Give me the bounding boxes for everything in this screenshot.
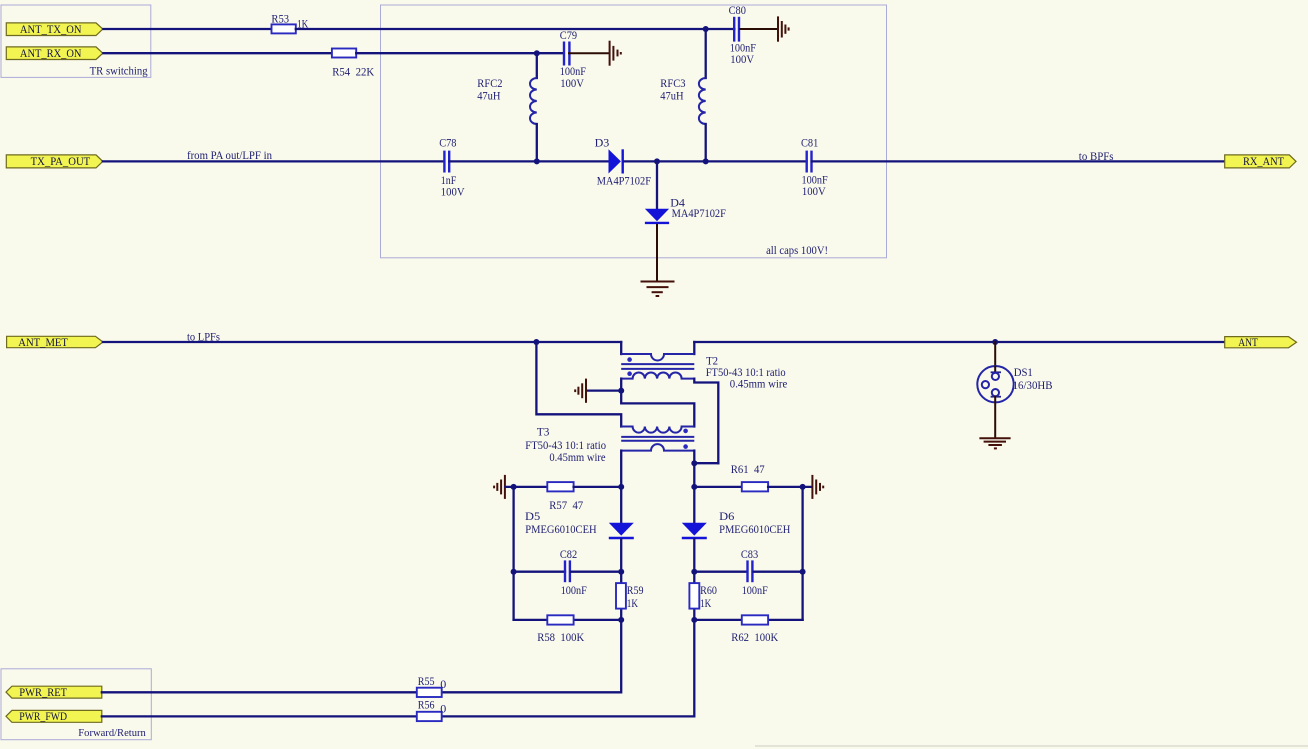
junction T2 secondary/ground (618, 388, 624, 394)
junction T3/T2 return (691, 460, 697, 466)
junction left rail top (511, 484, 517, 490)
junction RFC2 top (534, 50, 540, 56)
resistor R53 (271, 12, 308, 34)
capacitor C79 (560, 28, 586, 90)
box TR switching (1, 5, 151, 77)
junction C83 right (800, 569, 806, 575)
resistor R59 (616, 572, 644, 620)
svg-text:ANT_RX_ON: ANT_RX_ON (20, 48, 82, 60)
port ANT_TX_ON (6, 23, 103, 36)
svg-text:R61 47: R61 47 (731, 462, 765, 476)
svg-text:ANT_TX_ON: ANT_TX_ON (20, 24, 82, 36)
svg-text:all caps 100V!: all caps 100V! (766, 245, 828, 257)
wire C81 to RX_ANT (812, 160, 1225, 162)
svg-text:to BPFs: to BPFs (1079, 151, 1114, 163)
wire D3 to C81 (624, 160, 807, 162)
svg-text:R60: R60 (700, 583, 717, 597)
wire DS1 to ground (994, 397, 996, 438)
junction RFC2 bottom (534, 158, 540, 164)
wire left rail vertical (512, 487, 514, 620)
svg-text:R59: R59 (627, 583, 644, 597)
wire left branch to PWR_RET (442, 620, 622, 692)
resistor R55 (417, 674, 447, 697)
svg-text:MA4P7102F: MA4P7102F (672, 206, 727, 220)
wire ANT_MET to T2 (103, 341, 621, 343)
resistor R60 (689, 572, 716, 620)
junction D6 top (691, 484, 697, 490)
wire PWR_RET to R55 (102, 691, 417, 693)
svg-text:0: 0 (440, 677, 446, 691)
svg-text:0: 0 (440, 701, 446, 715)
svg-text:0.45mm wire: 0.45mm wire (549, 450, 605, 464)
wire junction to C80 (706, 28, 735, 30)
svg-text:C83: C83 (741, 547, 758, 561)
resistor R56 (417, 698, 447, 722)
wire R57 to D5 node (574, 486, 622, 488)
svg-text:TR switching: TR switching (90, 65, 148, 77)
diode D6 (682, 487, 791, 572)
svg-text:R55: R55 (418, 674, 435, 688)
svg-text:D5: D5 (525, 509, 540, 523)
port PWR_RET (6, 686, 102, 699)
diode D3 (595, 135, 652, 187)
junction R58 right (618, 617, 624, 623)
svg-text:PMEG6010CEH: PMEG6010CEH (719, 522, 791, 536)
lamp DS1 (977, 342, 1052, 402)
junction C83 left (691, 569, 697, 575)
svg-text:ANT: ANT (1238, 337, 1258, 349)
ground at C80 (778, 16, 789, 41)
svg-text:R54 22K: R54 22K (332, 64, 374, 78)
svg-text:MA4P7102F: MA4P7102F (597, 174, 652, 188)
ground at C79 (610, 41, 621, 66)
svg-text:C81: C81 (801, 136, 818, 150)
junction T3 branch (533, 339, 539, 345)
capacitor C78 (439, 136, 465, 199)
svg-text:R57 47: R57 47 (549, 498, 583, 512)
wire D4 to ground (656, 225, 658, 281)
wire ANT_MET branch to T3 (536, 342, 621, 427)
box Forward/Return (1, 669, 151, 740)
resistor R54 (332, 49, 375, 79)
wire T2 return to junction (694, 462, 718, 464)
junction C82 left (511, 569, 517, 575)
svg-text:ANT_MET: ANT_MET (18, 337, 68, 349)
svg-text:100V: 100V (560, 76, 584, 90)
resistor R58 (514, 615, 622, 644)
svg-text:PMEG6010CEH: PMEG6010CEH (525, 522, 597, 536)
junction C80/RFC3 top (703, 26, 709, 32)
ground left of R57 (494, 475, 505, 499)
diode D4 (645, 161, 726, 223)
port PWR_FWD (6, 710, 102, 723)
wire right branch to PWR_FWD (442, 620, 695, 717)
box all caps 100V (381, 5, 887, 258)
svg-text:TX_PA_OUT: TX_PA_OUT (31, 156, 91, 168)
svg-text:100nF: 100nF (561, 583, 587, 597)
wire ground to T2 (587, 389, 622, 391)
wire TX_PA_OUT to C78 (103, 160, 444, 162)
sheet border mark (755, 745, 1308, 747)
inductor RFC2 (477, 53, 537, 161)
port ANT_RX_ON (6, 47, 103, 60)
svg-text:from PA out/LPF in: from PA out/LPF in (187, 150, 272, 162)
wire T3 left down (620, 451, 622, 487)
transformer T3 (525, 425, 694, 464)
inductor RFC3 (660, 29, 705, 161)
port ANT (1225, 337, 1297, 350)
svg-text:Forward/Return: Forward/Return (78, 727, 146, 739)
svg-text:100V: 100V (730, 52, 754, 66)
junction C82 right (618, 569, 624, 575)
capacitor C82 (514, 547, 622, 597)
port TX_PA_OUT (6, 155, 103, 168)
svg-text:100V: 100V (802, 184, 826, 198)
svg-text:PWR_FWD: PWR_FWD (19, 711, 67, 723)
svg-text:R53: R53 (271, 12, 289, 26)
svg-text:C78: C78 (439, 136, 456, 150)
port RX_ANT (1225, 155, 1296, 168)
resistor R57 (547, 482, 583, 512)
wire PWR_FWD to R56 (102, 715, 417, 717)
wire right rail vertical (801, 487, 803, 620)
svg-text:R56: R56 (418, 698, 435, 712)
svg-text:R58 100K: R58 100K (537, 630, 584, 644)
resistor R62 (694, 615, 802, 644)
port ANT_MET (7, 336, 103, 349)
junction RFC3 bottom (703, 158, 709, 164)
junction right rail top (800, 484, 806, 490)
svg-text:100nF: 100nF (742, 583, 768, 597)
ground below D4 (641, 282, 675, 297)
svg-text:C82: C82 (560, 547, 577, 561)
svg-text:C79: C79 (560, 28, 577, 42)
diode D5 (525, 487, 634, 572)
transformer T2 (621, 342, 787, 463)
capacitor C81 (801, 136, 828, 198)
capacitor C80 (729, 3, 757, 66)
wire R53 to C80 junction (296, 28, 706, 30)
wire ANT_TX_ON to R53 (103, 28, 271, 30)
svg-text:100V: 100V (441, 184, 465, 198)
junction DS1 (992, 339, 998, 345)
ground below DS1 (979, 438, 1010, 448)
wire T2 out to ANT (694, 341, 1224, 343)
svg-text:RX_ANT: RX_ANT (1243, 156, 1284, 168)
wire R54 to C79 (356, 52, 563, 54)
svg-text:T3: T3 (537, 425, 550, 439)
svg-text:47uH: 47uH (477, 88, 501, 102)
junction D4 top (654, 158, 660, 164)
svg-text:16/30HB: 16/30HB (1013, 378, 1053, 392)
ground right of R61 (812, 475, 823, 499)
ground at T2 (575, 379, 586, 403)
wire C80 to ground (740, 28, 778, 30)
wire T2 to T3 (621, 391, 694, 427)
svg-text:R62 100K: R62 100K (731, 630, 778, 644)
svg-text:1K: 1K (700, 596, 711, 610)
svg-text:D6: D6 (719, 509, 734, 523)
svg-text:1K: 1K (627, 596, 638, 610)
svg-text:C80: C80 (729, 3, 746, 17)
capacitor C83 (694, 547, 802, 597)
svg-text:PWR_RET: PWR_RET (19, 687, 67, 699)
wire T3 right down (693, 451, 695, 487)
wire C78 to D3 (450, 160, 610, 162)
svg-text:0.45mm wire: 0.45mm wire (730, 377, 788, 391)
junction R62 left (691, 617, 697, 623)
junction D5 top (618, 484, 624, 490)
wire ground to R57 (506, 486, 548, 488)
resistor R61 (694, 462, 811, 492)
svg-text:D3: D3 (595, 135, 610, 149)
wire ANT_RX_ON to R54 (103, 52, 332, 54)
wire C79 to ground (569, 52, 609, 54)
svg-text:47uH: 47uH (660, 88, 684, 102)
